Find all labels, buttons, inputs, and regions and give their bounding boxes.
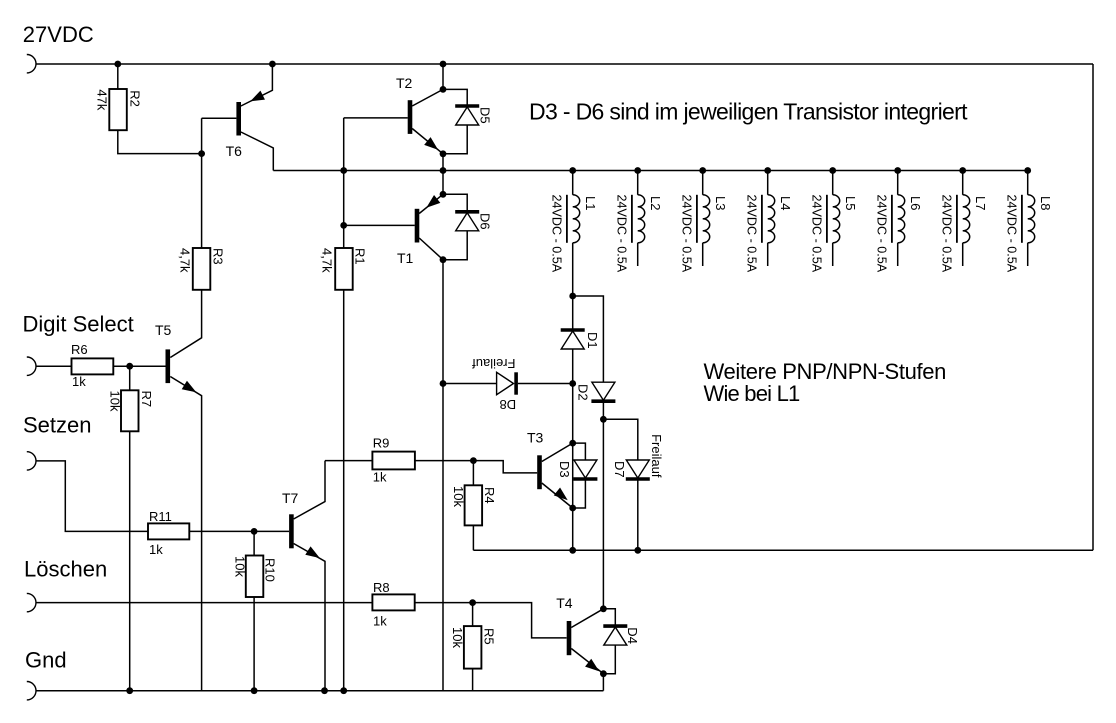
svg-text:10k: 10k	[450, 627, 465, 648]
svg-text:Freilauf: Freilauf	[472, 356, 516, 371]
svg-text:24VDC - 0.5A: 24VDC - 0.5A	[680, 195, 694, 273]
svg-text:R8: R8	[373, 580, 390, 595]
svg-text:D6: D6	[478, 213, 493, 230]
svg-text:Gnd: Gnd	[25, 648, 67, 673]
svg-text:L1: L1	[583, 196, 598, 210]
svg-text:T6: T6	[226, 143, 243, 159]
svg-text:4,7k: 4,7k	[178, 248, 193, 273]
svg-text:T7: T7	[282, 490, 299, 506]
svg-text:Freilauf: Freilauf	[649, 434, 664, 478]
svg-text:D5: D5	[478, 107, 493, 124]
svg-text:L6: L6	[908, 196, 923, 210]
svg-text:Löschen: Löschen	[24, 557, 107, 582]
svg-text:R5: R5	[481, 628, 496, 645]
svg-text:24VDC - 0.5A: 24VDC - 0.5A	[1005, 195, 1019, 273]
svg-text:Setzen: Setzen	[23, 412, 92, 437]
svg-text:R7: R7	[139, 391, 154, 408]
svg-text:L5: L5	[843, 196, 858, 210]
svg-text:T4: T4	[556, 595, 573, 611]
svg-text:R6: R6	[71, 342, 88, 357]
svg-text:24VDC - 0.5A: 24VDC - 0.5A	[615, 195, 629, 273]
svg-text:D3 - D6 sind im jeweiligen Tra: D3 - D6 sind im jeweiligen Transistor in…	[529, 98, 968, 124]
svg-text:D8: D8	[499, 397, 516, 412]
svg-text:L4: L4	[778, 196, 793, 210]
svg-text:1k: 1k	[373, 470, 387, 485]
svg-text:1k: 1k	[373, 613, 387, 628]
svg-text:R1: R1	[353, 248, 368, 265]
svg-text:10k: 10k	[233, 556, 248, 577]
svg-text:4,7k: 4,7k	[320, 248, 335, 273]
svg-text:R11: R11	[149, 509, 172, 524]
svg-text:D1: D1	[585, 332, 600, 349]
svg-text:10k: 10k	[451, 486, 466, 507]
svg-text:D2: D2	[575, 384, 590, 401]
svg-text:24VDC - 0.5A: 24VDC - 0.5A	[745, 195, 759, 273]
svg-text:10k: 10k	[108, 391, 123, 412]
svg-text:D7: D7	[612, 461, 627, 478]
svg-text:R3: R3	[210, 248, 225, 265]
svg-text:R10: R10	[263, 558, 278, 582]
svg-text:T2: T2	[396, 75, 413, 91]
svg-text:R4: R4	[482, 487, 497, 504]
svg-text:L7: L7	[973, 196, 988, 210]
svg-text:T3: T3	[527, 430, 544, 446]
svg-text:24VDC - 0.5A: 24VDC - 0.5A	[940, 195, 954, 273]
svg-text:27VDC: 27VDC	[23, 22, 94, 47]
svg-text:R9: R9	[373, 436, 390, 451]
svg-text:T5: T5	[155, 322, 172, 338]
svg-text:1k: 1k	[72, 374, 86, 389]
svg-text:Wie bei L1: Wie bei L1	[704, 381, 801, 406]
svg-text:L8: L8	[1038, 196, 1053, 210]
svg-text:24VDC - 0.5A: 24VDC - 0.5A	[810, 195, 824, 273]
svg-text:L3: L3	[713, 196, 728, 210]
svg-text:24VDC - 0.5A: 24VDC - 0.5A	[550, 195, 564, 273]
svg-text:D3: D3	[557, 461, 572, 478]
svg-text:T1: T1	[397, 250, 414, 266]
svg-text:D4: D4	[625, 627, 640, 644]
svg-text:Digit Select: Digit Select	[23, 312, 134, 337]
svg-text:1k: 1k	[149, 542, 163, 557]
svg-text:24VDC - 0.5A: 24VDC - 0.5A	[875, 195, 889, 273]
svg-text:L2: L2	[648, 196, 663, 210]
svg-text:47k: 47k	[95, 89, 110, 110]
svg-text:R2: R2	[127, 90, 142, 107]
